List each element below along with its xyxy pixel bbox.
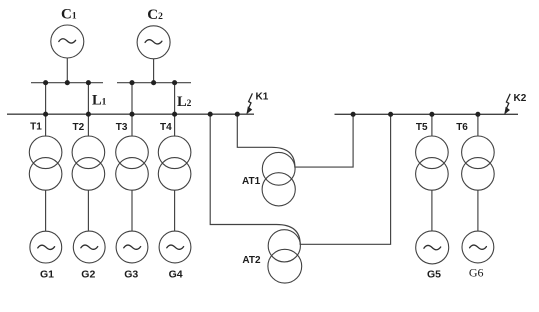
main bus right (K2 section) [335, 113, 519, 115]
generator G2 [73, 231, 105, 263]
wire T2 drop (bus L1 to T2) [87, 83, 89, 137]
AC tilde inside G6 [470, 245, 487, 249]
wire T4 drop (bus L2 to T4) [174, 83, 176, 137]
transformer T2 [72, 136, 105, 190]
junction dot main bus / T4 [172, 112, 177, 117]
junction dot bus L2 / C2 [151, 80, 156, 85]
svg-text:AT1: AT1 [242, 176, 261, 187]
junction dot right bus / T6 [475, 112, 480, 117]
svg-text:G1: G1 [40, 269, 54, 281]
source C2 circle [137, 26, 170, 59]
junction dot main bus / AT1 feeder [235, 112, 240, 117]
wire T1 drop (bus L1 to T1) [45, 83, 47, 137]
AC tilde inside G3 [124, 245, 141, 249]
AC tilde inside C2 [145, 40, 162, 44]
svg-text:K1: K1 [256, 92, 269, 103]
transformer T1 [29, 136, 62, 190]
AC tilde inside G1 [38, 245, 55, 249]
generator G5 [416, 231, 449, 264]
fault symbol K2 (lightning arrow) [504, 94, 510, 115]
wire T5 drop [431, 114, 433, 136]
junction dot main bus / T3 [129, 112, 134, 117]
wire T2 to G2 [87, 190, 89, 231]
svg-text:T1: T1 [30, 122, 42, 133]
source C1 circle [51, 25, 84, 58]
svg-text:T4: T4 [160, 122, 172, 133]
svg-text:T5: T5 [416, 122, 428, 133]
junction dot main bus / T2 [86, 112, 91, 117]
generator G6 [462, 231, 494, 263]
junction dot right bus / AT2 [388, 112, 393, 117]
wire C2 stem [153, 59, 155, 83]
junction dot main bus / AT2 feeder [208, 112, 213, 117]
transformer T4 [158, 136, 191, 190]
svg-text:G2: G2 [81, 269, 95, 281]
svg-text:T2: T2 [73, 122, 85, 133]
svg-text:T3: T3 [116, 122, 128, 133]
svg-text:K2: K2 [514, 93, 527, 104]
AC tilde inside G5 [424, 245, 441, 249]
AC tilde inside G4 [167, 245, 184, 249]
AC tilde inside G2 [81, 245, 98, 249]
wire AT1 feeder (K1 bus to AT1 to K2 bus) [237, 114, 353, 167]
svg-text:G5: G5 [427, 268, 441, 280]
wire T6 drop [477, 114, 479, 136]
svg-text:G3: G3 [124, 269, 138, 281]
wire AT2 feeder (K1 bus to AT2 to K2 bus) [210, 114, 390, 244]
svg-text:G6: G6 [469, 265, 484, 279]
svg-text:AT2: AT2 [242, 255, 261, 266]
generator G3 [116, 231, 148, 263]
junction dot bus L1 / C1 [65, 80, 70, 85]
bus L1 (upper sectional bus) [31, 82, 103, 84]
wire C1 stem [66, 58, 68, 83]
junction dot right bus / T5 [429, 112, 434, 117]
wire T4 to G4 [174, 190, 176, 231]
transformer T3 [116, 136, 149, 190]
generator G1 [30, 231, 62, 263]
transformer T6 [462, 136, 495, 190]
junction dot main bus / T1 [43, 112, 48, 117]
wire T6 to G6 [477, 190, 479, 231]
wire T5 to G5 [431, 190, 433, 231]
autotransformer AT2 [268, 230, 302, 283]
svg-text:T6: T6 [456, 122, 468, 133]
wire T1 to G1 [45, 190, 47, 231]
wire T3 to G3 [131, 190, 133, 231]
AC tilde inside C1 [59, 39, 76, 43]
junction dot bus L2 / T4 [172, 80, 177, 85]
autotransformer AT1 [262, 152, 295, 205]
main bus left (K1 section) [7, 113, 254, 115]
fault symbol K1 (lightning arrow) [246, 93, 252, 114]
svg-text:G4: G4 [169, 269, 183, 281]
transformer T5 [416, 136, 449, 190]
junction dot right bus / AT1 [351, 112, 356, 117]
generator G4 [159, 231, 191, 263]
wire T3 drop (bus L2 to T3) [131, 83, 133, 137]
junction dot bus L2 / T3 [129, 80, 134, 85]
junction dot bus L1 / T2 [86, 80, 91, 85]
junction dot bus L1 / T1 [43, 80, 48, 85]
bus L2 (upper sectional bus) [117, 82, 191, 84]
